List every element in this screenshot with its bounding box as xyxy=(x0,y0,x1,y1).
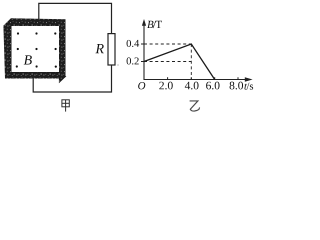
label R xyxy=(95,44,103,53)
x tick 8.0 xyxy=(237,77,239,79)
wire top: frame top to resistor top xyxy=(39,3,112,33)
x tick 6.0 xyxy=(214,77,216,79)
x tick 4.0 xyxy=(190,77,192,79)
dashed line at B=0.4 xyxy=(144,43,191,45)
y tick 0.2 xyxy=(141,61,144,63)
y-axis arrowhead xyxy=(142,19,146,26)
origin label O xyxy=(138,82,145,89)
y tick label 0.4 xyxy=(127,40,140,47)
field dots row 2 xyxy=(17,48,57,50)
x tick 2.0 xyxy=(167,77,169,79)
x tick label 6.0 xyxy=(206,82,219,90)
y-axis label B/T xyxy=(147,21,162,28)
B-t curve xyxy=(144,44,215,80)
y tick 0.4 xyxy=(141,43,144,45)
dashed line at B=0.2 xyxy=(144,61,191,63)
field dots row 3 xyxy=(16,65,57,67)
graph y-axis xyxy=(143,21,145,80)
field region frame (square loop with bevelled corners, 甲 figure) xyxy=(3,18,66,83)
dashed line at t=4.0 xyxy=(190,44,192,80)
graph x-axis xyxy=(144,79,252,81)
x tick label 8.0 xyxy=(230,82,244,90)
label 甲 (figure 1) drawn strokes xyxy=(62,100,69,112)
wire bottom: resistor bottom to frame bottom xyxy=(33,65,111,92)
x-axis label t/s xyxy=(244,83,253,90)
field dots (B out of page) row 1 xyxy=(17,32,57,34)
y tick label 0.2 xyxy=(127,57,139,64)
x tick label 2.0 xyxy=(159,82,172,90)
x tick label 4.0 xyxy=(185,82,199,90)
stray scan speck xyxy=(117,64,119,65)
x-axis arrowhead xyxy=(245,77,253,81)
label B (magnetic field) xyxy=(24,55,32,64)
resistor R box xyxy=(108,34,115,65)
label 乙 (figure 2) drawn strokes xyxy=(190,101,200,111)
